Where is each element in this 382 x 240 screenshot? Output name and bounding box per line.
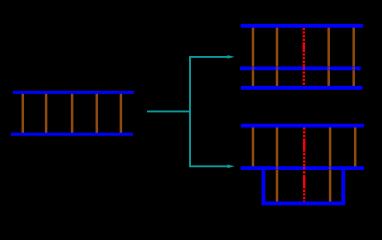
parent DNA bottom strand	[11, 133, 133, 136]
parent rung 1	[22, 93, 25, 134]
daughter 1 rung 4	[327, 26, 330, 89]
connector branch wire	[189, 56, 191, 167]
daughter 1 red crossing	[303, 67, 305, 70]
daughter 2 rung 2 crossing	[276, 167, 279, 170]
daughter 1 rung 2 crossing	[276, 67, 279, 70]
parent rung 4	[96, 93, 99, 134]
daughter 2 marked site (red dashed)	[303, 128, 305, 203]
daughter 1 rung 1 crossing	[252, 67, 255, 70]
daughter 2 red crossing	[303, 167, 305, 170]
daughter 1 middle strand	[240, 67, 361, 71]
bottom arrow wire	[190, 165, 230, 167]
daughter 1 rung 4 crossing	[327, 67, 330, 70]
daughter 1 rung 5 crossing	[352, 67, 355, 70]
daughter 2 top strand	[241, 124, 364, 128]
daughter 2 rung 1	[252, 126, 255, 167]
daughter 2 marked site long dash a	[303, 139, 305, 151]
daughter 2 rung 4	[329, 126, 332, 202]
daughter 1 top strand	[241, 24, 363, 28]
daughter 1 rung 1	[252, 26, 255, 89]
top arrowhead	[227, 55, 235, 59]
daughter 1 rung 2	[276, 26, 279, 89]
connector stem wire	[147, 110, 190, 112]
daughter 2 middle strand	[241, 166, 364, 170]
parent rung 3	[71, 93, 74, 134]
daughter 2 rung 5	[354, 126, 357, 167]
daughter 1 marked site long dash	[303, 43, 305, 51]
parent rung 5	[120, 93, 123, 134]
parent DNA top strand	[13, 91, 134, 94]
top arrow wire	[190, 56, 230, 58]
daughter 1 marked site (red dashed)	[303, 28, 305, 88]
daughter 1 rung 5	[352, 26, 355, 89]
daughter 2 marked site long dash b	[303, 177, 305, 188]
daughter 2 rung 4 crossing	[329, 167, 332, 170]
parent rung 2	[45, 93, 48, 134]
daughter 1 bottom strand	[241, 86, 363, 90]
daughter 2 rung 2	[276, 126, 279, 202]
bottom arrowhead	[227, 164, 235, 168]
daughter 2 insertion loop	[263, 168, 343, 203]
